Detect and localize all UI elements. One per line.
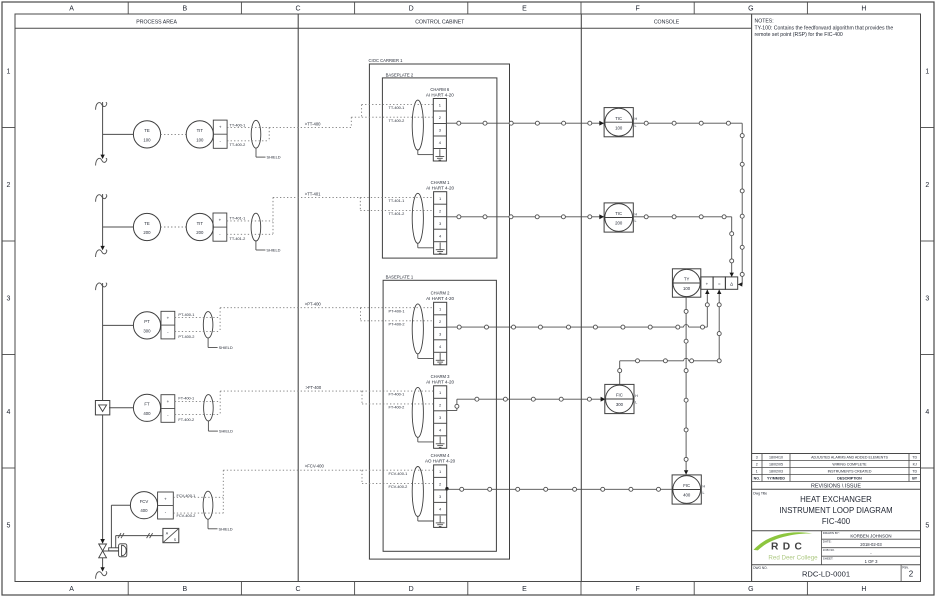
svg-text:3: 3: [7, 295, 11, 302]
svg-text:RDC-LD-0001: RDC-LD-0001: [802, 569, 850, 578]
svg-text:TT-401-2: TT-401-2: [230, 236, 246, 241]
svg-text:CHARM 3: CHARM 3: [431, 374, 451, 379]
svg-text:FT-400-1: FT-400-1: [389, 392, 405, 397]
svg-text:100: 100: [683, 286, 691, 291]
svg-text:NO.: NO.: [754, 477, 760, 481]
svg-text:400: 400: [143, 411, 151, 416]
svg-text:1 OF 3: 1 OF 3: [865, 559, 878, 564]
svg-text:TY: TY: [684, 277, 690, 282]
svg-text:DESCRIPTION: DESCRIPTION: [837, 477, 862, 481]
svg-text:200: 200: [615, 221, 623, 226]
svg-text:300: 300: [616, 402, 624, 407]
svg-text:H: H: [861, 6, 866, 13]
svg-text:CIOC CARRIER 1: CIOC CARRIER 1: [369, 58, 404, 63]
svg-text:C: C: [295, 6, 300, 13]
svg-text:FT-400-2: FT-400-2: [389, 405, 405, 410]
svg-text:SHIELD: SHIELD: [219, 526, 233, 531]
svg-text:AO HART 4-20: AO HART 4-20: [425, 459, 456, 464]
svg-text:2: 2: [756, 463, 758, 467]
svg-text:JOB NO.: JOB NO.: [823, 548, 835, 552]
svg-text:TT-400-1: TT-400-1: [230, 123, 246, 128]
svg-text:E: E: [522, 6, 527, 13]
svg-text:TT-400-2: TT-400-2: [230, 142, 246, 147]
svg-text:=: =: [718, 282, 721, 287]
svg-text:L: L: [635, 219, 637, 223]
svg-text:4: 4: [925, 409, 929, 416]
svg-text:>FCV-400: >FCV-400: [305, 464, 325, 469]
svg-text:PT-400-1: PT-400-1: [178, 312, 194, 317]
svg-text:PT: PT: [144, 319, 150, 324]
svg-text:100: 100: [196, 137, 204, 142]
svg-text:RDC: RDC: [771, 541, 806, 552]
svg-text:INSTRUMENT LOOP DIAGRAM: INSTRUMENT LOOP DIAGRAM: [779, 506, 892, 515]
svg-text:TT-400-1: TT-400-1: [389, 105, 405, 110]
svg-text:L: L: [703, 491, 705, 495]
svg-text:FIC: FIC: [616, 393, 623, 398]
svg-text:FCV: FCV: [140, 499, 149, 504]
svg-text:D: D: [409, 6, 414, 13]
svg-text:18/02/05: 18/02/05: [769, 463, 783, 467]
svg-text:SHIELD: SHIELD: [219, 429, 233, 434]
svg-text:A: A: [69, 6, 74, 13]
svg-text:FT-400-2: FT-400-2: [178, 417, 194, 422]
svg-text:4: 4: [7, 409, 11, 416]
svg-text:SHIELD: SHIELD: [266, 248, 280, 253]
svg-text:SHIELD: SHIELD: [267, 155, 281, 160]
svg-text:PT-400-2: PT-400-2: [178, 334, 194, 339]
svg-text:3: 3: [756, 456, 758, 460]
svg-text:F: F: [635, 6, 639, 13]
svg-text:SHIELD: SHIELD: [219, 345, 233, 350]
svg-text:TD: TD: [912, 470, 917, 474]
svg-text:TT-401-1: TT-401-1: [230, 215, 246, 220]
svg-text:TE: TE: [144, 128, 150, 133]
svg-text:100: 100: [143, 137, 151, 142]
svg-text:Dwg Title: Dwg Title: [753, 492, 767, 496]
svg-text:TT-400-2: TT-400-2: [389, 118, 405, 123]
svg-text:DATE:: DATE:: [823, 540, 832, 544]
svg-text:+: +: [219, 125, 222, 130]
svg-text:FCV-400-2: FCV-400-2: [177, 513, 196, 518]
svg-text:+: +: [164, 496, 167, 501]
svg-text:+: +: [706, 282, 709, 287]
svg-text:+: +: [167, 399, 170, 404]
svg-text:>TT-401: >TT-401: [305, 191, 321, 196]
svg-text:TIT: TIT: [197, 128, 204, 133]
svg-text:AI HART 4-20: AI HART 4-20: [426, 296, 454, 301]
svg-text:TIT: TIT: [197, 221, 204, 226]
svg-text:2: 2: [925, 182, 929, 189]
svg-text:2: 2: [909, 570, 914, 579]
svg-text:CHARM 6: CHARM 6: [430, 87, 450, 92]
svg-text:FIC: FIC: [683, 483, 690, 488]
svg-text:CHARM 1: CHARM 1: [431, 180, 451, 185]
svg-text:1: 1: [925, 68, 929, 75]
svg-text:300: 300: [143, 328, 151, 333]
svg-text:2018-02-03: 2018-02-03: [860, 542, 882, 547]
svg-text:A: A: [69, 586, 74, 593]
svg-text:ADJUSTED ALARMS AND ADDED ELEM: ADJUSTED ALARMS AND ADDED ELEMENTS: [811, 456, 888, 460]
svg-text:B: B: [182, 586, 187, 593]
svg-text:1: 1: [7, 68, 11, 75]
svg-text:BASEPLATE 1: BASEPLATE 1: [386, 275, 414, 280]
svg-text:KJ: KJ: [913, 463, 917, 467]
svg-text:Red Deer College: Red Deer College: [768, 555, 818, 562]
svg-text:5: 5: [7, 522, 11, 529]
svg-text:TT-401-2: TT-401-2: [389, 211, 405, 216]
svg-text:C: C: [295, 586, 300, 593]
svg-text:CONSOLE: CONSOLE: [654, 19, 680, 25]
svg-text:>PT-400: >PT-400: [305, 302, 322, 307]
svg-text:+: +: [219, 218, 222, 223]
svg-text:FT-400-1: FT-400-1: [178, 396, 194, 401]
svg-text:400: 400: [140, 508, 148, 513]
svg-text:AI HART 4-20: AI HART 4-20: [426, 186, 454, 191]
svg-text:G: G: [748, 586, 753, 593]
svg-text:PT-400-1: PT-400-1: [389, 308, 405, 313]
svg-text:INSTRUMENTS CREATED: INSTRUMENTS CREATED: [828, 470, 872, 474]
svg-text:TT-401-1: TT-401-1: [389, 198, 405, 203]
svg-text:DRAWN BY:: DRAWN BY:: [823, 531, 840, 535]
svg-text:CONTROL CABINET: CONTROL CABINET: [415, 19, 465, 25]
svg-text:FCV-400-2: FCV-400-2: [389, 484, 408, 489]
svg-text:FCV-400-1: FCV-400-1: [177, 493, 196, 498]
svg-text:+: +: [167, 316, 170, 321]
svg-text:18/02/03: 18/02/03: [769, 470, 783, 474]
svg-text:200: 200: [143, 230, 151, 235]
svg-text:400: 400: [683, 493, 691, 498]
svg-text:TIC: TIC: [615, 211, 622, 216]
svg-text:L: L: [635, 124, 637, 128]
svg-text:D: D: [409, 586, 414, 593]
svg-text:remote set point (RSP) for the: remote set point (RSP) for the FIC-400: [755, 32, 843, 38]
svg-text:DWG NO.: DWG NO.: [753, 566, 767, 570]
svg-text:L: L: [635, 401, 637, 405]
svg-text:YY/MM/DD: YY/MM/DD: [767, 477, 785, 481]
svg-text:TD: TD: [912, 456, 917, 460]
svg-text:B: B: [182, 6, 187, 13]
svg-text:200: 200: [196, 230, 204, 235]
svg-text:FT: FT: [144, 402, 150, 407]
svg-text:2: 2: [7, 182, 11, 189]
svg-text:TE: TE: [144, 221, 150, 226]
svg-text:NOTES:: NOTES:: [755, 19, 774, 25]
svg-text:FCV-400-1: FCV-400-1: [389, 471, 408, 476]
svg-text:SHEET:: SHEET:: [823, 557, 834, 561]
svg-text:E: E: [522, 586, 527, 593]
svg-text:PT-400-2: PT-400-2: [389, 321, 405, 326]
svg-text:H: H: [861, 586, 866, 593]
svg-text:Δ: Δ: [730, 282, 733, 287]
svg-text:FIC-400: FIC-400: [822, 517, 851, 526]
svg-text:TY-100: Contains the feedforwa: TY-100: Contains the feedforward algorit…: [755, 25, 894, 31]
svg-text:G: G: [748, 6, 753, 13]
svg-text:>TT-400: >TT-400: [305, 121, 321, 126]
svg-text:HEAT EXCHANGER: HEAT EXCHANGER: [800, 495, 872, 504]
svg-text:CHARM 2: CHARM 2: [431, 291, 451, 296]
svg-text:BY: BY: [912, 477, 918, 481]
svg-text:AI HART 4-20: AI HART 4-20: [426, 92, 454, 97]
svg-text:AI HART 4-20: AI HART 4-20: [426, 380, 454, 385]
svg-text:F: F: [635, 586, 639, 593]
svg-text:100: 100: [615, 125, 623, 130]
svg-text:TIC: TIC: [615, 116, 622, 121]
svg-text:PROCESS AREA: PROCESS AREA: [136, 19, 177, 25]
svg-text:18/04/10: 18/04/10: [769, 456, 783, 460]
svg-text:REVISIONS \ ISSUE: REVISIONS \ ISSUE: [811, 483, 861, 489]
svg-text:1: 1: [756, 470, 758, 474]
svg-text:WIRING COMPLETE: WIRING COMPLETE: [832, 463, 867, 467]
svg-text:>FT-400: >FT-400: [306, 385, 322, 390]
svg-text:KORBEN JOHNSON: KORBEN JOHNSON: [850, 533, 891, 538]
svg-text:5: 5: [925, 522, 929, 529]
svg-text:3: 3: [925, 295, 929, 302]
svg-text:BASEPLATE 2: BASEPLATE 2: [386, 72, 414, 77]
svg-text:CHARM 4: CHARM 4: [431, 453, 451, 458]
